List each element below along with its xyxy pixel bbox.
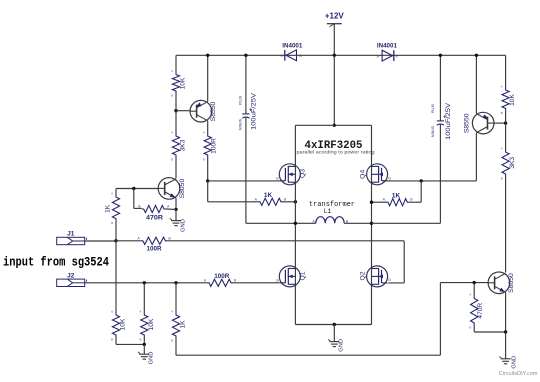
wire right S8550 collector down — [475, 133, 477, 181]
svg-text:S8050: S8050 — [179, 179, 186, 199]
svg-text:B: B — [171, 338, 173, 342]
wire right bridge rail — [371, 125, 373, 324]
wire 1K to left rail — [283, 201, 295, 203]
svg-text:A: A — [171, 69, 173, 73]
svg-text:parallel acording to power rat: parallel acording to power rating — [297, 150, 376, 155]
svg-text:1K: 1K — [179, 320, 186, 329]
node junction cap1 top — [244, 54, 247, 57]
wire S8550 collector down — [207, 121, 209, 134]
diode D2 IN4001 — [382, 50, 393, 61]
svg-text:3K3: 3K3 — [509, 157, 516, 169]
svg-text:A: A — [203, 130, 205, 134]
mosfet Q2 — [367, 266, 388, 287]
wire base junction to 3K3 — [505, 123, 507, 150]
svg-text:10K: 10K — [120, 318, 127, 330]
node junction top rail right — [475, 54, 478, 57]
wire 100R to driver node — [207, 157, 209, 181]
connector J2 — [57, 279, 85, 286]
svg-text:GND: GND — [149, 352, 155, 365]
wire S8050 emitter down — [175, 198, 177, 210]
node junction L1 right — [370, 222, 373, 225]
svg-text:1K: 1K — [392, 192, 401, 199]
svg-text:B: B — [501, 111, 503, 115]
svg-text:B: B — [111, 337, 113, 341]
node junction base left — [132, 187, 135, 190]
node junction driver node left — [206, 179, 209, 182]
wire right S8550 emitter up — [475, 55, 477, 113]
mosfet Q3 — [279, 164, 300, 185]
svg-text:100uF/25V: 100uF/25V — [445, 102, 452, 140]
svg-text:GND: GND — [339, 339, 345, 352]
wire +12V down to bridge top — [333, 55, 335, 125]
svg-text:A: A — [111, 309, 113, 313]
wire bridge bottom — [295, 324, 371, 326]
resistor 470R right — [471, 296, 478, 325]
ground GND bridge — [333, 325, 335, 342]
ground GND bottom-left — [143, 344, 145, 354]
svg-text:A: A — [139, 309, 141, 313]
wire bridge top edge — [295, 124, 371, 126]
connector J1 — [57, 237, 85, 244]
resistor 3K3 right — [502, 150, 509, 176]
diode D1 IN4001 — [286, 50, 297, 61]
wire base network S8050 — [116, 188, 158, 190]
svg-text:G: G — [276, 176, 279, 180]
node junction J2 at 176 — [174, 281, 177, 284]
wire 470R drop — [133, 189, 135, 209]
wire right S8050 emitter — [505, 292, 507, 332]
resistor 1K J1 — [112, 195, 119, 221]
svg-text:CircuitsDIY.com: CircuitsDIY.com — [499, 371, 538, 377]
resistor 10K bottom-a — [112, 313, 119, 337]
svg-text:J2: J2 — [67, 272, 75, 279]
svg-text:G: G — [276, 278, 279, 282]
resistor 10K bottom-b — [141, 313, 148, 337]
svg-text:1K: 1K — [264, 192, 273, 199]
svg-text:100R: 100R — [147, 246, 162, 253]
svg-text:A: A — [171, 309, 173, 313]
svg-text:S8550: S8550 — [210, 101, 217, 121]
wire J2 line — [85, 282, 207, 284]
svg-text:A: A — [501, 84, 503, 88]
node junction J1 — [114, 239, 117, 242]
node junction left rail 1K — [294, 200, 297, 203]
node junction cap2 top — [439, 54, 442, 57]
wire base to S8550 — [176, 110, 190, 112]
wire J2 drop at 144 — [143, 283, 145, 313]
wire S8550 emitter up — [207, 55, 209, 101]
wire 470R bottom to emitter — [473, 325, 475, 332]
wire right rail top — [505, 55, 507, 88]
wire left bridge rail — [294, 125, 296, 324]
node junction S8550 base — [174, 109, 177, 112]
wire J1 long line to Q2 gate — [167, 240, 404, 242]
svg-text:PLUS: PLUS — [431, 103, 435, 113]
svg-text:100R: 100R — [210, 138, 217, 154]
node junction J2 at 144 — [143, 281, 146, 284]
wire bottom rail — [176, 354, 440, 356]
inductor L1 transformer — [295, 222, 315, 224]
svg-text:10K: 10K — [509, 94, 516, 106]
svg-text:transformer: transformer — [309, 201, 355, 209]
svg-text:MINUS: MINUS — [239, 118, 243, 130]
resistor 470R left — [142, 205, 166, 212]
node junction 470R emitter — [174, 208, 177, 211]
wire J1 to junction — [85, 240, 116, 242]
svg-text:PLUS: PLUS — [239, 95, 243, 105]
svg-text:GND: GND — [511, 356, 517, 369]
svg-text:B: B — [469, 325, 471, 329]
svg-text:Q2: Q2 — [359, 271, 366, 280]
wire bottom rail to base — [440, 282, 487, 284]
node junction right emitter — [504, 330, 507, 333]
wire 100R J2 to Q1 gate — [233, 282, 279, 284]
resistor 3K3 left — [172, 134, 179, 157]
node junction right rail 1K — [370, 201, 373, 204]
resistor 10K left-top — [172, 73, 179, 94]
transistor S8050 right NPN — [488, 272, 510, 294]
wire right S8550 base — [494, 122, 506, 124]
svg-text:B: B — [169, 236, 171, 240]
svg-text:B: B — [171, 157, 173, 161]
resistor 1K gate right — [386, 199, 409, 206]
wire 1K to bottom rail — [175, 338, 177, 355]
wire 1K right to rail — [372, 201, 387, 203]
svg-text:470R: 470R — [146, 215, 163, 222]
svg-text:3K3: 3K3 — [180, 139, 187, 151]
wire 1K to J1 line — [115, 221, 117, 241]
svg-text:100R: 100R — [214, 273, 229, 280]
svg-text:A: A — [111, 191, 113, 195]
node junction right base — [504, 121, 507, 124]
node junction 470R right top — [473, 281, 476, 284]
svg-text:G: G — [388, 278, 391, 282]
svg-text:MINUS: MINUS — [431, 125, 435, 137]
svg-text:IN4001: IN4001 — [282, 43, 302, 50]
transistor S8550 right PNP — [472, 112, 494, 134]
ground GND bottom-right — [505, 332, 507, 359]
svg-text:Q3: Q3 — [300, 169, 307, 178]
svg-text:B: B — [203, 157, 205, 161]
wire J2 drop at 176 — [175, 283, 177, 313]
svg-text:Q1: Q1 — [300, 271, 307, 280]
transistor S8550 left PNP — [190, 100, 212, 122]
svg-text:10K: 10K — [148, 318, 155, 330]
wire 470R right drop — [473, 283, 475, 297]
resistor 100R left vertical — [204, 134, 211, 157]
wire 1K drop from base corner — [115, 189, 117, 196]
wire J1 vert to 10K — [115, 241, 117, 313]
ground GND left driver — [175, 209, 177, 220]
wire 470R to emitter — [166, 208, 176, 210]
resistor 1K gate left — [258, 198, 283, 205]
wire 3K3 down to S8050 — [505, 176, 507, 273]
svg-text:B: B — [171, 93, 173, 97]
wire 10K-b bottom — [143, 337, 145, 344]
wire left rail mid — [175, 111, 177, 134]
wire left rail upper — [175, 55, 177, 72]
svg-text:GND: GND — [180, 219, 186, 232]
wire J1 to 100R — [116, 240, 141, 242]
node junction bridge top centre — [333, 124, 336, 127]
wire right 1K drop — [420, 181, 422, 202]
svg-text:B: B — [138, 205, 140, 209]
mosfet Q1 — [279, 266, 300, 287]
power +12V symbol — [327, 23, 342, 25]
capacitor C2 100uF/25V — [437, 120, 444, 122]
svg-text:10K: 10K — [180, 77, 187, 89]
node junction top rail at 207 — [206, 54, 209, 57]
svg-text:A: A — [469, 293, 471, 297]
svg-text:+12V: +12V — [325, 12, 345, 21]
svg-text:100uF/25V: 100uF/25V — [250, 92, 257, 130]
svg-text:Q4: Q4 — [359, 170, 366, 179]
wire top +12V rail — [176, 54, 506, 56]
svg-text:A: A — [501, 146, 503, 150]
wire cap1 line lower — [245, 118, 247, 224]
transistor S8050 left NPN — [158, 178, 180, 200]
wire driver to Q3 gate — [208, 180, 280, 182]
node junction L1 left — [294, 222, 297, 225]
wire cap2 upper — [439, 55, 441, 121]
resistor 10K right — [502, 88, 509, 110]
node junction right gate — [420, 179, 423, 182]
resistor 100R J1 — [141, 237, 168, 244]
mosfet Q4 — [367, 164, 388, 185]
node junction bridge bottom centre — [333, 323, 336, 326]
wire 3K3 to S8050 collector — [175, 157, 177, 179]
wire 10K-a bottom — [115, 337, 117, 344]
resistor 100R J2 — [207, 279, 233, 286]
svg-text:B: B — [410, 198, 412, 202]
node junction +12V on top rail — [333, 54, 336, 57]
svg-text:L1: L1 — [324, 208, 332, 215]
svg-text:B: B — [501, 176, 503, 180]
wire cap1 line upper — [245, 55, 247, 114]
svg-text:S8550: S8550 — [463, 113, 470, 133]
resistor 1K bottom — [172, 313, 179, 338]
svg-text:IN4001: IN4001 — [377, 43, 397, 50]
wire Q4 gate to driver — [382, 180, 476, 182]
svg-text:J1: J1 — [67, 231, 75, 238]
svg-text:B: B — [284, 197, 286, 201]
wire 10K to base junction — [505, 110, 507, 123]
svg-text:input from sg3524: input from sg3524 — [3, 255, 109, 269]
wire driver down to 1K — [207, 181, 209, 202]
svg-text:B: B — [234, 278, 236, 282]
wire cap2 lower — [439, 125, 441, 224]
svg-text:470R: 470R — [477, 303, 484, 319]
svg-text:B: B — [111, 221, 113, 225]
svg-text:G: G — [388, 176, 391, 180]
capacitor C1 100uF/25V — [242, 113, 249, 115]
svg-text:A: A — [171, 130, 173, 134]
svg-text:S8050: S8050 — [508, 273, 515, 293]
node junction 10K bottoms — [143, 343, 146, 346]
svg-text:B: B — [139, 337, 141, 341]
svg-text:1K: 1K — [105, 204, 112, 213]
